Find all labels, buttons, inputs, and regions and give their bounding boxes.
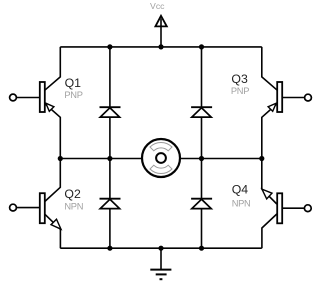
svg-text:Q4: Q4 bbox=[232, 182, 249, 196]
motor M1 lower brush bbox=[150, 165, 172, 173]
wire Q1 emitter to mid rail bbox=[45, 104, 60, 159]
motor M1 body bbox=[142, 139, 180, 177]
wire ground stem bbox=[160, 248, 162, 269]
wire Q4 emitter to mid rail bbox=[262, 159, 277, 205]
wire Q4 base lead bbox=[282, 207, 304, 209]
wire Q3 base lead bbox=[282, 97, 304, 99]
junction dot bottom-right diode/ground rail bbox=[199, 246, 204, 251]
junction dot top-right diode/Vcc rail bbox=[199, 44, 204, 49]
terminal circle Q1 base bbox=[10, 94, 17, 101]
svg-text:NPN: NPN bbox=[64, 201, 83, 211]
transistor Q2 base bar bbox=[40, 193, 45, 223]
junction dot Vcc stem bbox=[158, 44, 163, 49]
wire bottom rail ground net bbox=[60, 247, 261, 249]
junction dot ground stem bbox=[158, 246, 163, 251]
transistor Q1 base bar bbox=[40, 82, 45, 112]
wire mid rail left (motor terminal A) bbox=[60, 158, 142, 160]
diode D1 (upper left) bbox=[100, 107, 121, 117]
svg-text:PNP: PNP bbox=[64, 90, 82, 100]
wire Q1 base lead bbox=[17, 97, 40, 99]
junction dot mid rail left diode bbox=[107, 156, 112, 161]
svg-text:Q1: Q1 bbox=[65, 76, 82, 90]
wire Q2 base lead bbox=[17, 207, 40, 209]
transistor Q2 emitter arrow (NPN, points out) bbox=[51, 219, 61, 229]
transistor Q1 emitter arrow (PNP, points into base) bbox=[46, 103, 54, 111]
wire left diode column bbox=[109, 47, 111, 248]
diode D2 (lower left) bbox=[100, 199, 121, 209]
wire Vcc stem inside arrow bbox=[160, 19, 162, 27]
diode D4 (lower right) bbox=[191, 199, 212, 209]
wire Q2 emitter to bottom rail bbox=[45, 214, 61, 248]
junction dot top-left diode/Vcc rail bbox=[107, 44, 112, 49]
transistor Q4 emitter arrow (NPN, points out) bbox=[262, 189, 272, 199]
svg-text:PNP: PNP bbox=[231, 86, 249, 96]
wire mid rail right (motor terminal B) bbox=[180, 158, 262, 160]
wire Q1 collector to top rail bbox=[45, 47, 61, 90]
junction dot mid rail left end bbox=[58, 156, 63, 161]
junction dot mid rail right diode bbox=[199, 156, 204, 161]
wire Q3 emitter to mid rail bbox=[262, 104, 277, 159]
diode D3 (upper right) bbox=[191, 107, 212, 117]
power symbol Vcc arrow bbox=[155, 16, 166, 27]
motor M1 upper brush bbox=[150, 142, 172, 150]
wire Q3 collector to top rail bbox=[262, 47, 277, 90]
junction dot mid rail right end bbox=[259, 156, 264, 161]
svg-text:Q2: Q2 bbox=[64, 187, 81, 201]
wire Q2 collector to mid rail bbox=[45, 159, 61, 202]
transistor Q3 emitter arrow (PNP, points into base) bbox=[268, 103, 276, 111]
wire Q4 collector to bottom rail bbox=[262, 214, 277, 248]
svg-text:NPN: NPN bbox=[232, 199, 251, 209]
ground bbox=[150, 270, 171, 280]
terminal circle Q3 base bbox=[305, 94, 312, 101]
transistor Q4 base bar bbox=[277, 193, 282, 223]
svg-text:Q3: Q3 bbox=[231, 72, 248, 86]
terminal circle Q4 base bbox=[304, 205, 311, 212]
wire right diode column bbox=[201, 47, 203, 248]
transistor Q3 base bar bbox=[277, 82, 282, 112]
svg-text:Vcc: Vcc bbox=[150, 1, 165, 11]
wire top rail Vcc net bbox=[60, 46, 261, 48]
junction dot bottom-left diode/ground rail bbox=[107, 246, 112, 251]
motor M1 shaft circle bbox=[156, 153, 166, 163]
terminal circle Q2 base bbox=[10, 204, 17, 211]
wire Vcc stem bbox=[160, 19, 162, 47]
